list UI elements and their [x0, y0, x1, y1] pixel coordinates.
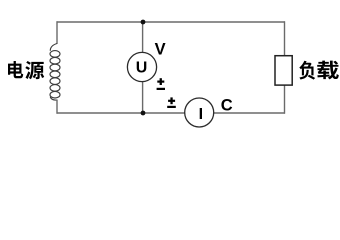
- wire right vertical (upper segment): [284, 21, 286, 56]
- label fu (load) char 1 of 负载: [299, 61, 315, 80]
- label dian (power) char 1 of 电源: [8, 61, 23, 78]
- wire left vertical (upper segment): [56, 21, 58, 44]
- svg-text:V: V: [155, 40, 166, 58]
- label zai (load) char 2 of 负载: [317, 61, 339, 80]
- wire bottom horizontal (right of ammeter): [214, 112, 285, 114]
- svg-text:I: I: [199, 106, 203, 123]
- ammeter I (circle): [185, 98, 214, 127]
- ammeter letter I: [199, 106, 203, 123]
- label V (voltmeter terminal): [155, 40, 166, 58]
- node junction dot top: [141, 20, 146, 25]
- load resistor box: [275, 56, 292, 85]
- node junction dot bottom: [141, 111, 146, 116]
- label plus-minus (voltmeter polarity): [157, 78, 165, 90]
- label plus-minus (ammeter polarity): [167, 97, 176, 108]
- wire top horizontal: [57, 21, 286, 23]
- wire voltmeter branch (upper segment): [142, 22, 144, 53]
- svg-text:U: U: [136, 59, 148, 76]
- label yuan (source) char 2 of 电源: [25, 61, 44, 79]
- svg-text:C: C: [221, 96, 233, 114]
- wire left vertical (lower segment): [56, 100, 58, 114]
- wire voltmeter branch (lower segment): [142, 82, 144, 113]
- voltmeter U (circle): [127, 52, 156, 81]
- label C (ammeter terminal): [221, 96, 233, 114]
- wire right vertical (lower segment): [284, 85, 286, 114]
- inductor L (power source coil): [50, 44, 60, 101]
- voltmeter letter U: [136, 59, 148, 76]
- wire bottom horizontal (left of ammeter): [57, 112, 186, 114]
